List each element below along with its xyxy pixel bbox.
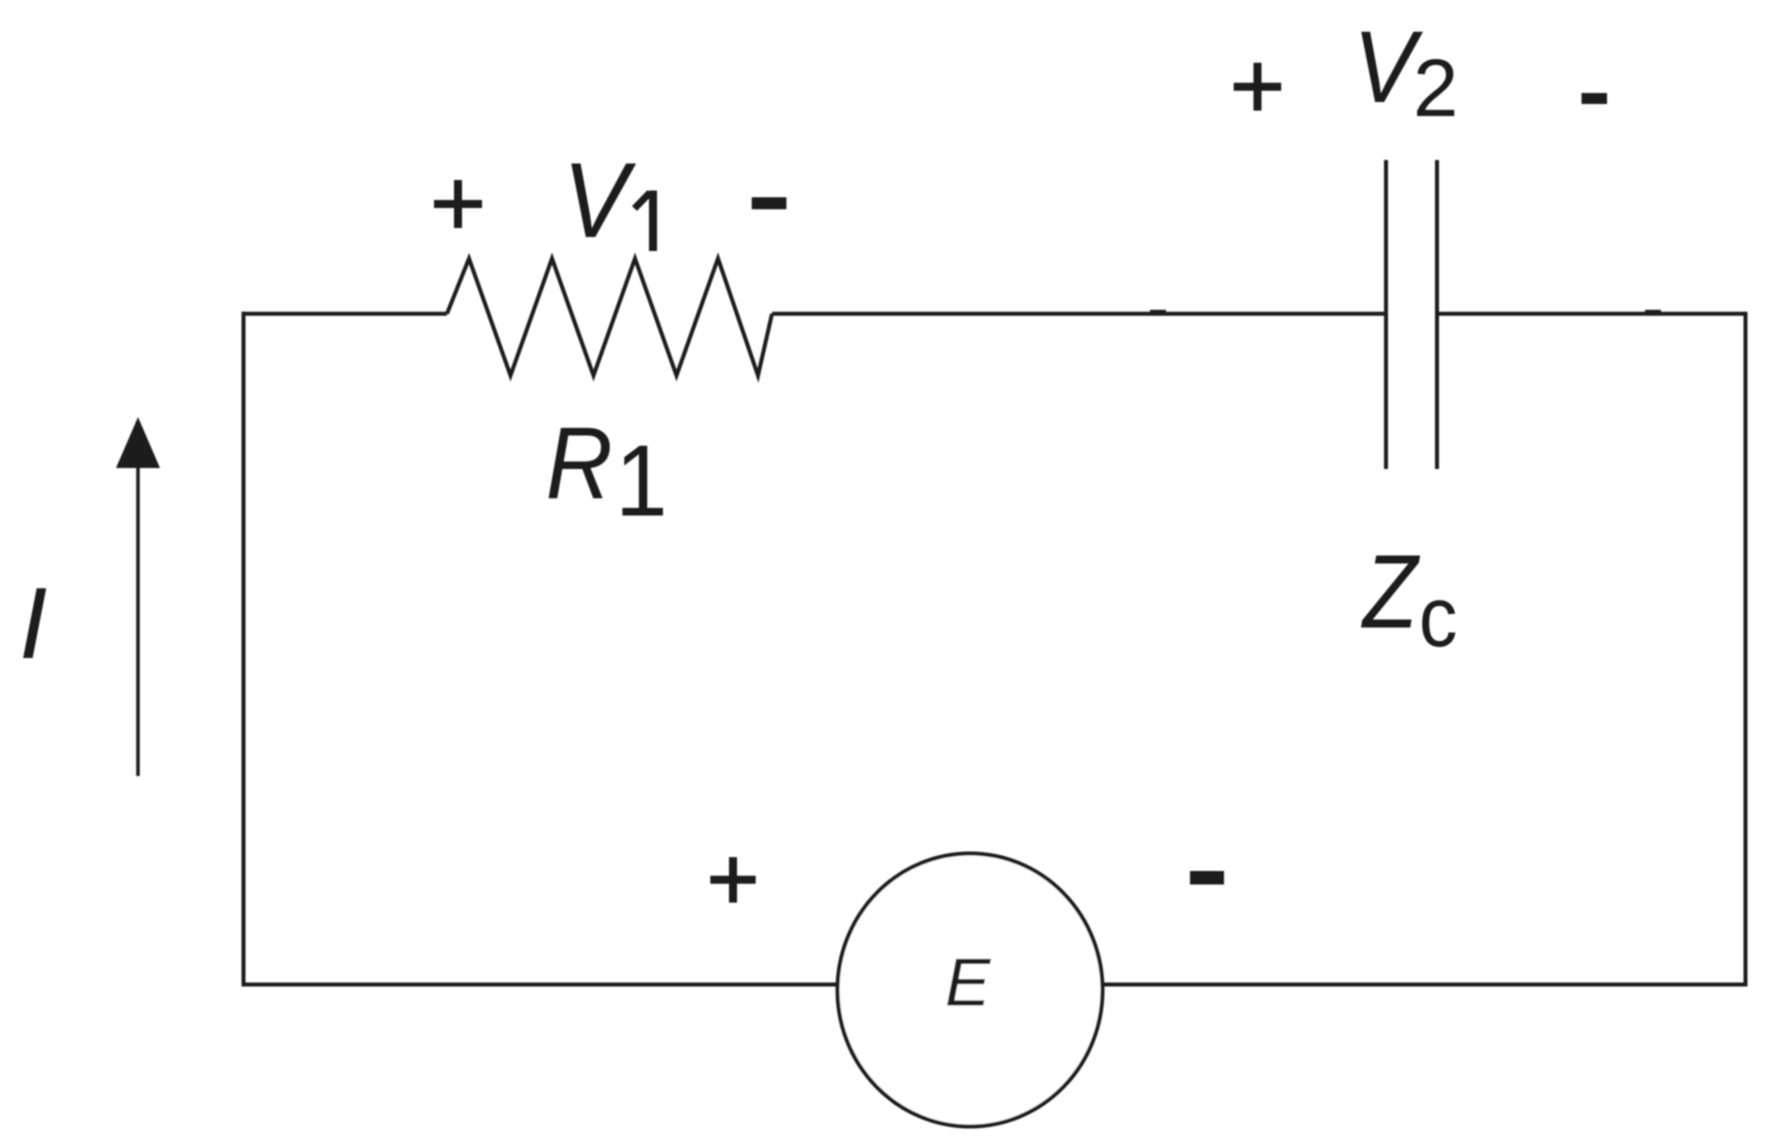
svg-text:E: E	[945, 945, 991, 1021]
wire: bottom-right horizontal to source	[1104, 983, 1748, 987]
wire: capacitor right plate to top-right corner	[1437, 312, 1746, 316]
wire: resistor to capacitor left plate	[772, 312, 1384, 316]
svg-text:I: I	[19, 566, 47, 680]
svg-text:R: R	[546, 406, 613, 520]
wire: top-left horizontal to resistor	[242, 312, 448, 316]
plus sign of V2	[1234, 63, 1282, 111]
voltage source E circle	[838, 854, 1103, 1127]
wire: left vertical branch	[242, 312, 246, 987]
capacitor Zc right plate	[1435, 160, 1439, 469]
plus sign of E	[710, 857, 755, 903]
svg-text:c: c	[1419, 570, 1458, 665]
wire: bottom-left horizontal from source	[242, 983, 837, 987]
node tick on top wire (right of capacitor)	[1645, 310, 1661, 316]
svg-text:1: 1	[615, 426, 667, 538]
capacitor Zc left plate	[1384, 160, 1388, 469]
current arrow I shaft	[136, 462, 140, 776]
svg-text:2: 2	[1413, 43, 1458, 134]
current arrow I head	[116, 417, 160, 468]
svg-text:Z: Z	[1360, 533, 1420, 650]
minus sign of E	[1190, 871, 1224, 885]
svg-text:V: V	[563, 140, 637, 260]
node tick on top wire (left of capacitor)	[1150, 310, 1166, 316]
minus sign of V1	[752, 197, 787, 209]
resistor R1	[447, 259, 772, 376]
minus sign of V2	[1582, 93, 1608, 104]
plus sign of V1	[434, 180, 482, 228]
wire: right vertical branch	[1744, 312, 1748, 987]
